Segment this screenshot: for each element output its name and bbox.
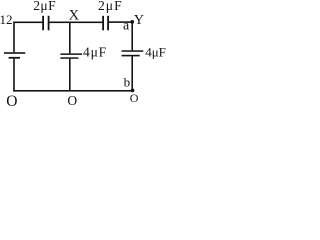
svg-text:O: O [67, 93, 77, 108]
svg-text:Y: Y [134, 13, 144, 28]
wire top segment from battery corner to C1 [13, 22, 43, 24]
battery 12V bottom plate [9, 57, 20, 59]
capacitor C3 4uF bottom plate [60, 57, 78, 59]
svg-text:b: b [124, 75, 131, 90]
wire left vertical lower segment [13, 59, 15, 92]
capacitor C4 4uF top plate [122, 50, 144, 52]
node b junction dot [131, 89, 135, 93]
capacitor C4 4uF bottom plate [122, 55, 140, 57]
svg-text:a: a [123, 19, 130, 34]
node a junction dot [130, 20, 134, 24]
capacitor C3 4uF top plate [60, 53, 82, 55]
wire top segment from C1 to C2 through node X [50, 22, 103, 24]
svg-text:X: X [69, 7, 80, 23]
wire right vertical lower segment [131, 56, 133, 90]
wire left vertical upper segment [13, 22, 15, 53]
wire middle vertical upper segment [69, 22, 71, 53]
svg-text:2μF: 2μF [33, 0, 56, 13]
svg-text:12: 12 [0, 12, 13, 27]
capacitor C2 2uF plates [102, 16, 109, 30]
svg-text:4μF: 4μF [145, 44, 166, 59]
svg-text:O: O [130, 91, 139, 105]
svg-text:O: O [6, 93, 17, 110]
wire bottom segment [13, 90, 132, 92]
capacitor C1 2uF plates [42, 16, 49, 30]
wire top segment from C2 to node a [109, 21, 133, 23]
svg-text:4μF: 4μF [83, 45, 107, 60]
wire right vertical upper segment [131, 22, 133, 51]
svg-text:2μF: 2μF [98, 0, 123, 13]
wire middle vertical lower segment [69, 59, 71, 91]
battery 12V top plate [4, 52, 25, 54]
